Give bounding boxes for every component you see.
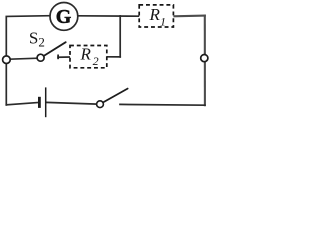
switch S2 contact tick	[57, 55, 59, 60]
battery cell: short thick plate	[38, 97, 41, 108]
svg-text:2: 2	[93, 54, 99, 68]
switch S2 pivot	[37, 54, 44, 61]
switch S1 pivot	[97, 101, 104, 108]
galvanometer G circle	[50, 3, 78, 31]
svg-text:S2: S2	[29, 28, 45, 49]
svg-text:G: G	[56, 6, 72, 28]
wire R2 right stub	[107, 56, 120, 58]
wire left rail lower	[5, 64, 7, 105]
wire switch to bottom-right corner	[120, 103, 205, 106]
wire S2 contact stub	[58, 56, 70, 58]
svg-text:1: 1	[160, 15, 166, 29]
battery cell: long thin plate	[45, 87, 47, 117]
resistor R1 dashed box	[139, 5, 173, 27]
wire battery to switch	[46, 102, 96, 104]
switch S2 blade	[44, 42, 66, 56]
wire bottom rail left	[6, 103, 38, 105]
switch S1 blade	[103, 89, 128, 103]
wire node to S2	[6, 58, 37, 59]
wire top-left corner	[6, 16, 50, 56]
wire top rail right	[173, 15, 205, 18]
svg-text:R: R	[149, 5, 161, 24]
wire junction riser	[119, 16, 121, 57]
wire top rail middle	[78, 15, 139, 17]
wire right rail	[204, 16, 206, 106]
svg-text:R: R	[80, 45, 92, 64]
node right terminal	[201, 55, 208, 62]
node left terminal	[3, 56, 11, 64]
resistor R2 dashed box	[70, 46, 107, 68]
